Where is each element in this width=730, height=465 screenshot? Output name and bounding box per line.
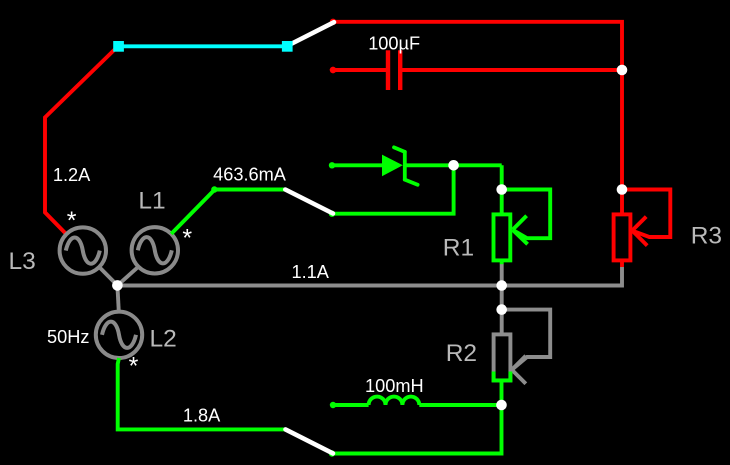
svg-text:100µF: 100µF — [368, 34, 420, 54]
svg-text:R1: R1 — [443, 235, 474, 262]
svg-text:1.8A: 1.8A — [183, 406, 221, 426]
svg-text:100mH: 100mH — [365, 376, 424, 396]
svg-text:1.2A: 1.2A — [53, 165, 91, 185]
svg-text:R3: R3 — [691, 223, 722, 250]
svg-text:*: * — [182, 224, 192, 252]
svg-text:L1: L1 — [138, 187, 165, 214]
svg-text:50Hz: 50Hz — [47, 327, 89, 347]
svg-text:L2: L2 — [150, 325, 177, 352]
svg-text:463.6mA: 463.6mA — [213, 165, 287, 185]
svg-text:*: * — [67, 207, 77, 235]
svg-text:1.1A: 1.1A — [292, 262, 330, 282]
svg-text:L3: L3 — [9, 248, 36, 275]
svg-text:*: * — [129, 353, 139, 381]
svg-text:R2: R2 — [446, 340, 477, 367]
